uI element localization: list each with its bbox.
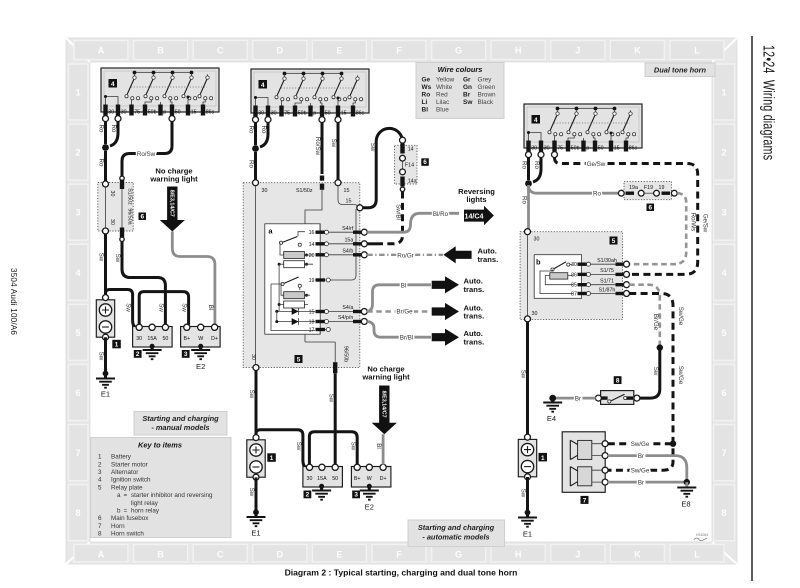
relay a inner box (automatic) bbox=[265, 224, 320, 334]
svg-text:W: W bbox=[198, 336, 203, 342]
svg-text:b: b bbox=[117, 508, 121, 515]
svg-text:J: J bbox=[575, 550, 580, 560]
horn relay b switch bbox=[551, 262, 573, 271]
svg-text:2: 2 bbox=[75, 148, 80, 158]
svg-text:Br/Bl: Br/Bl bbox=[400, 335, 413, 342]
svg-text:Gn: Gn bbox=[463, 84, 472, 91]
svg-text:30: 30 bbox=[136, 336, 142, 342]
svg-text:Sw: Sw bbox=[520, 489, 527, 498]
svg-text:20: 20 bbox=[309, 253, 315, 259]
wire Br horn switch to earth E4 bbox=[553, 397, 596, 400]
svg-text:5: 5 bbox=[721, 328, 726, 338]
wire Br/Ge horn relay S1/71 to horn switch (horn) bbox=[629, 285, 660, 345]
svg-text:30: 30 bbox=[544, 145, 550, 151]
svg-text:Bl: Bl bbox=[422, 107, 429, 114]
wire Sw starter 30 to alternator B+ (manual) bbox=[139, 292, 188, 325]
wire Ro junction to relay plate 30 (automatic) bbox=[254, 152, 257, 180]
item label 2 (automatic starter) bbox=[304, 491, 312, 499]
svg-text:G: G bbox=[455, 550, 462, 560]
battery U1 (horn) bbox=[518, 434, 536, 480]
starter ground (manual) bbox=[150, 344, 155, 349]
terminal circles below ignition (manual) bbox=[103, 116, 109, 122]
svg-text:4: 4 bbox=[534, 117, 538, 124]
svg-text:Bl: Bl bbox=[401, 282, 407, 289]
item label 2 (manual starter) bbox=[134, 350, 142, 358]
svg-text:2: 2 bbox=[721, 148, 726, 158]
alternator ground E2 (automatic) bbox=[367, 484, 372, 489]
svg-text:Br: Br bbox=[463, 92, 471, 99]
svg-text:E: E bbox=[336, 46, 342, 56]
battery U1 (manual) bbox=[96, 295, 114, 341]
svg-text:50b: 50b bbox=[571, 145, 580, 151]
svg-text:E1: E1 bbox=[251, 529, 260, 538]
twin horns U7 box bbox=[562, 432, 605, 493]
svg-text:1: 1 bbox=[98, 454, 102, 461]
wire Bl relay S4/a to auto trans (automatic) bbox=[367, 285, 431, 312]
svg-text:50: 50 bbox=[162, 336, 168, 342]
svg-text:Sw: Sw bbox=[330, 139, 337, 148]
svg-text:3: 3 bbox=[184, 351, 188, 358]
wire Sw fusebox to battery (manual) bbox=[104, 234, 107, 295]
wire Sw/Bl fuse 14a to relay 15a (automatic) bbox=[367, 187, 404, 244]
svg-text:86s: 86s bbox=[206, 109, 215, 115]
svg-text:8: 8 bbox=[721, 508, 726, 518]
svg-text:trans.: trans. bbox=[478, 255, 499, 264]
svg-text:Ge/Sw: Ge/Sw bbox=[587, 161, 606, 168]
svg-text:S1/87h: S1/87h bbox=[599, 287, 616, 293]
svg-text:4: 4 bbox=[721, 268, 727, 278]
wire Ro from ignition 30b (automatic) bbox=[260, 122, 268, 147]
starting and charging automatic models label bbox=[408, 520, 505, 547]
wire Ro from ignition 30 (horn) bbox=[527, 157, 530, 180]
svg-text:Sw: Sw bbox=[125, 303, 132, 312]
svg-text:19: 19 bbox=[309, 278, 315, 284]
svg-text:Dual tone horn: Dual tone horn bbox=[654, 65, 707, 74]
relay plate 30 input terminal (horn) bbox=[525, 229, 540, 243]
svg-text:75: 75 bbox=[284, 110, 290, 116]
svg-text:E1: E1 bbox=[101, 390, 110, 399]
svg-text:86s: 86s bbox=[356, 110, 365, 116]
svg-text:H: H bbox=[515, 550, 522, 560]
wire Sw 15 to fuse F14 via loop (automatic) bbox=[363, 128, 403, 207]
svg-text:E8: E8 bbox=[681, 500, 690, 509]
svg-text:7: 7 bbox=[98, 523, 102, 530]
svg-text:A: A bbox=[98, 46, 105, 56]
svg-text:Lilac: Lilac bbox=[436, 99, 450, 106]
wire 30 rail inside horn relay plate bbox=[527, 234, 529, 316]
svg-text:18: 18 bbox=[309, 320, 315, 326]
svg-text:50: 50 bbox=[598, 145, 604, 151]
svg-text:Sw: Sw bbox=[248, 488, 255, 497]
svg-text:Sw: Sw bbox=[295, 442, 302, 451]
svg-text:Relay plate: Relay plate bbox=[111, 484, 143, 491]
wire Sw starter 30 to alternator B+ (automatic) bbox=[309, 432, 357, 465]
svg-text:50b: 50b bbox=[148, 109, 157, 115]
wire Br/Ge relay S4/a to auto trans (automatic) bbox=[367, 310, 431, 313]
svg-text:B+: B+ bbox=[354, 476, 361, 482]
svg-text:86s: 86s bbox=[629, 145, 638, 151]
wire Sw battery to earth E1 (manual) bbox=[104, 337, 107, 372]
svg-text:Starter motor: Starter motor bbox=[111, 461, 148, 468]
page margin rule right bbox=[751, 36, 753, 581]
svg-text:Sw: Sw bbox=[98, 352, 105, 361]
svg-text:Horn switch: Horn switch bbox=[111, 531, 144, 538]
svg-text:Sw: Sw bbox=[181, 303, 188, 312]
svg-text:Blue: Blue bbox=[436, 107, 449, 114]
svg-text:6: 6 bbox=[98, 515, 102, 522]
horn relay plate grey box (item 5) bbox=[520, 232, 623, 320]
ignition switch U4 (horn) bbox=[524, 104, 642, 152]
svg-text:S4/p/n: S4/p/n bbox=[338, 315, 353, 321]
svg-text:17: 17 bbox=[309, 328, 315, 334]
relay plate grey box (automatic, item 5) bbox=[243, 183, 360, 368]
wire colours legend box bbox=[416, 63, 504, 119]
svg-text:1: 1 bbox=[541, 455, 545, 462]
svg-text:30: 30 bbox=[571, 262, 577, 268]
item label 5 (horn relay plate) bbox=[610, 237, 618, 245]
wire Bl warning light to alternator D+ (manual) bbox=[172, 232, 215, 325]
ignition switch U4 (manual) bbox=[101, 68, 219, 116]
svg-text:Sw/Ge: Sw/Ge bbox=[631, 441, 650, 448]
svg-text:=: = bbox=[124, 492, 128, 499]
wire Ro junction down to relay plate 30 (horn) bbox=[527, 187, 530, 230]
svg-text:6: 6 bbox=[423, 159, 427, 166]
wire Sw/Ge horn relay S1/87h to horns (horn) bbox=[629, 294, 673, 438]
horn switch U8 bbox=[595, 391, 640, 405]
svg-text:15: 15 bbox=[344, 188, 350, 194]
svg-text:2: 2 bbox=[306, 492, 310, 499]
svg-text:15a: 15a bbox=[344, 237, 353, 243]
relay plate bottom terminals (automatic) bbox=[253, 365, 259, 371]
svg-text:S1/30ah: S1/30ah bbox=[597, 258, 617, 264]
svg-text:C: C bbox=[217, 46, 224, 56]
arrow auto trans Bl bbox=[432, 276, 459, 293]
svg-text:30: 30 bbox=[109, 219, 115, 225]
svg-text:2: 2 bbox=[136, 351, 140, 358]
wire Ro from ignition 30 (automatic) bbox=[254, 122, 257, 145]
junction node Sw/Ge (horns) bbox=[670, 441, 676, 447]
wire Sw 96/50b to starter 50 (automatic) bbox=[334, 373, 337, 465]
frame row numbers right bbox=[714, 64, 735, 541]
svg-text:Br/Ge: Br/Ge bbox=[396, 309, 413, 316]
svg-text:1: 1 bbox=[75, 88, 80, 98]
svg-text:14a: 14a bbox=[408, 178, 417, 184]
item label 3 (automatic alternator) bbox=[352, 491, 360, 499]
svg-text:Wire colours: Wire colours bbox=[438, 65, 483, 74]
wire Sw battery to earth E1 (horn) bbox=[526, 477, 529, 511]
svg-text:Starting and charging: Starting and charging bbox=[142, 414, 219, 423]
junction node Ro (manual) bbox=[102, 144, 109, 151]
svg-text:F14: F14 bbox=[405, 162, 414, 168]
svg-text:1: 1 bbox=[721, 88, 726, 98]
relay a terminal rows bbox=[247, 104, 709, 541]
svg-text:30: 30 bbox=[534, 236, 540, 242]
svg-text:Br/Ge: Br/Ge bbox=[652, 314, 659, 331]
svg-text:b: b bbox=[536, 258, 541, 267]
svg-text:- automatic models: - automatic models bbox=[422, 532, 489, 541]
svg-text:horn relay: horn relay bbox=[131, 508, 160, 515]
svg-text:50: 50 bbox=[325, 110, 331, 116]
wire Sw junction to horn switch (horn) bbox=[640, 348, 660, 399]
relay a bottom link to 17 and 96/50b bbox=[271, 224, 335, 342]
svg-text:19a: 19a bbox=[629, 185, 638, 191]
page frame outer band bbox=[66, 38, 737, 564]
wire Ro junction to fusebox (manual) bbox=[104, 151, 107, 181]
relay plate 30 output terminal (horn) bbox=[525, 316, 531, 322]
svg-text:S1/71: S1/71 bbox=[600, 279, 614, 285]
svg-text:2: 2 bbox=[98, 461, 102, 468]
svg-text:S4/b: S4/b bbox=[342, 248, 353, 254]
svg-text:Sw: Sw bbox=[248, 390, 255, 399]
svg-text:Sw: Sw bbox=[114, 254, 121, 263]
svg-text:Sw: Sw bbox=[98, 253, 105, 262]
wire Sw fuse 96/50a to starter 50 (manual) bbox=[122, 242, 165, 325]
svg-text:30: 30 bbox=[531, 145, 537, 151]
item label 1 (horn battery) bbox=[539, 453, 548, 462]
svg-text:75: 75 bbox=[557, 145, 563, 151]
svg-text:5: 5 bbox=[98, 484, 102, 491]
svg-text:Ro/Sw: Ro/Sw bbox=[137, 151, 156, 158]
arrow 14/C4 reversing lights bbox=[464, 206, 494, 226]
wire Ro from ignition 30b (horn) bbox=[533, 157, 541, 182]
svg-text:Sw/Bl: Sw/Bl bbox=[395, 204, 402, 220]
svg-text:p: p bbox=[313, 110, 316, 116]
svg-text:J: J bbox=[575, 46, 580, 56]
terminal circles below ignition (horn) bbox=[526, 152, 532, 158]
junction node Ro (automatic) bbox=[252, 145, 259, 152]
svg-text:15: 15 bbox=[309, 310, 315, 316]
svg-text:Battery: Battery bbox=[111, 454, 132, 461]
svg-text:S4/a: S4/a bbox=[342, 305, 353, 311]
text no charge warning light (manual) bbox=[149, 166, 198, 183]
svg-text:15: 15 bbox=[614, 145, 620, 151]
svg-text:4: 4 bbox=[111, 81, 115, 88]
relay a switch 2 bbox=[281, 277, 302, 290]
svg-text:warning light: warning light bbox=[149, 174, 198, 183]
svg-text:Sw: Sw bbox=[369, 143, 376, 152]
horn 2 symbol bbox=[570, 467, 602, 486]
svg-text:Horn: Horn bbox=[111, 523, 125, 530]
svg-text:5: 5 bbox=[75, 328, 80, 338]
svg-text:Gr: Gr bbox=[463, 77, 471, 84]
svg-text:Green: Green bbox=[478, 84, 496, 91]
horn 1 symbol bbox=[570, 440, 602, 459]
svg-text:7: 7 bbox=[75, 448, 80, 458]
svg-text:7: 7 bbox=[721, 448, 726, 458]
item label 1 (manual battery) bbox=[112, 340, 121, 349]
svg-text:starter inhibitor and reversin: starter inhibitor and reversing bbox=[131, 492, 213, 499]
svg-text:4: 4 bbox=[98, 477, 102, 484]
svg-text:Ro/Ws: Ro/Ws bbox=[690, 213, 697, 232]
junction node Br at E8 bbox=[684, 479, 690, 485]
starter motor U2 (manual) bbox=[133, 324, 173, 347]
svg-text:Ro: Ro bbox=[533, 161, 540, 169]
svg-text:30: 30 bbox=[108, 109, 114, 115]
svg-text:trans.: trans. bbox=[464, 312, 485, 321]
svg-text:Bl: Bl bbox=[375, 443, 382, 449]
ground E4 bbox=[549, 395, 556, 402]
wire Ro junction to fuse F19 (horn) bbox=[529, 185, 619, 193]
svg-text:Brown: Brown bbox=[478, 92, 497, 99]
svg-text:Starting and charging: Starting and charging bbox=[418, 523, 495, 532]
svg-text:Sw: Sw bbox=[349, 442, 356, 451]
horn relay b inner box bbox=[534, 255, 581, 299]
svg-text:trans.: trans. bbox=[464, 285, 485, 294]
svg-text:Yellow: Yellow bbox=[436, 77, 455, 84]
arrow auto trans Ro/Gr bbox=[443, 246, 471, 263]
wire Sw/Ge horn1 to junction bbox=[608, 442, 670, 445]
svg-text:7: 7 bbox=[583, 497, 587, 504]
svg-text:8: 8 bbox=[75, 508, 80, 518]
svg-text:S1/50z: S1/50z bbox=[126, 188, 132, 205]
svg-text:Bl: Bl bbox=[207, 305, 214, 311]
svg-text:F: F bbox=[396, 46, 402, 56]
svg-text:S1/50z: S1/50z bbox=[296, 188, 313, 194]
svg-text:Ro: Ro bbox=[521, 196, 528, 204]
wire 30 rail inside relay plate (automatic) bbox=[255, 185, 257, 365]
svg-text:Br: Br bbox=[575, 396, 581, 403]
svg-text:Ro: Ro bbox=[248, 160, 255, 168]
svg-text:Diagram 2 : Typical starting,: Diagram 2 : Typical starting, charging a… bbox=[285, 568, 518, 578]
wire Ro/Sw ignition 50 to fuse S1/50z (manual) bbox=[122, 121, 172, 176]
wire Ro/Ws fuse 19 to horn relay S1/30ah (horn) bbox=[630, 193, 687, 264]
svg-text:87: 87 bbox=[571, 292, 577, 298]
ground E1 (manual) bbox=[103, 371, 109, 377]
arrow auto trans Br/Bl bbox=[432, 329, 459, 346]
battery U1 (automatic) bbox=[247, 435, 265, 481]
wire Sw battery to starter 30 (automatic) bbox=[256, 430, 307, 468]
svg-text:Sw/Ge: Sw/Ge bbox=[677, 307, 684, 326]
svg-text:Ro/Gr: Ro/Gr bbox=[397, 252, 414, 259]
svg-text:30: 30 bbox=[258, 110, 264, 116]
svg-text:Ro: Ro bbox=[521, 161, 528, 169]
svg-text:5: 5 bbox=[612, 238, 616, 245]
svg-text:30: 30 bbox=[307, 476, 313, 482]
svg-text:30: 30 bbox=[532, 311, 538, 317]
svg-text:15A: 15A bbox=[317, 476, 327, 482]
svg-text:30: 30 bbox=[250, 354, 256, 360]
svg-text:15A: 15A bbox=[147, 336, 157, 342]
svg-text:Sw: Sw bbox=[327, 394, 334, 403]
wire S1/50z fuse link inside relay plate (automatic) bbox=[305, 188, 322, 224]
svg-text:a: a bbox=[117, 492, 121, 499]
wire 19 link inside relay plate (automatic) bbox=[329, 209, 356, 280]
svg-text:Sw: Sw bbox=[463, 99, 473, 106]
svg-text:D+: D+ bbox=[211, 336, 218, 342]
svg-text:L: L bbox=[694, 46, 700, 56]
svg-text:Main fusebox: Main fusebox bbox=[111, 515, 149, 522]
item label 5 (automatic relay plate) bbox=[295, 355, 303, 363]
svg-text:W: W bbox=[367, 476, 372, 482]
svg-text:White: White bbox=[436, 84, 453, 91]
wire 96/50b link inside relay plate (automatic) bbox=[334, 342, 336, 362]
svg-text:A: A bbox=[98, 550, 105, 560]
svg-text:D+: D+ bbox=[380, 476, 387, 482]
svg-text:D: D bbox=[276, 550, 283, 560]
svg-text:Ro: Ro bbox=[110, 125, 117, 133]
svg-text:30: 30 bbox=[271, 110, 277, 116]
svg-text:Ro: Ro bbox=[98, 125, 105, 133]
alternator U3 (manual) bbox=[181, 324, 221, 347]
svg-text:19: 19 bbox=[659, 185, 665, 191]
wire Br horn2 to earth E8 bbox=[608, 481, 684, 484]
svg-text:Grey: Grey bbox=[478, 77, 493, 84]
wire Bl/Ro relay S4/rf to reversing lights (automatic) bbox=[367, 213, 459, 232]
svg-text:75: 75 bbox=[134, 109, 140, 115]
wire Sw relay plate to battery (automatic) bbox=[255, 370, 258, 435]
item label 3 (manual alternator) bbox=[182, 350, 190, 358]
svg-text:E: E bbox=[336, 550, 342, 560]
svg-text:lights: lights bbox=[466, 195, 486, 204]
svg-text:6: 6 bbox=[140, 213, 144, 220]
relay a coil 1 bbox=[278, 243, 313, 312]
item label 6 (manual fusebox) bbox=[139, 213, 147, 221]
horn terminals bbox=[602, 441, 608, 447]
svg-text:16: 16 bbox=[309, 230, 315, 236]
svg-text:Ro: Ro bbox=[422, 92, 431, 99]
svg-text:light relay: light relay bbox=[131, 500, 159, 507]
svg-text:1: 1 bbox=[270, 455, 274, 462]
svg-text:E2: E2 bbox=[365, 503, 374, 512]
svg-text:Black: Black bbox=[478, 99, 494, 106]
svg-text:4: 4 bbox=[75, 268, 81, 278]
main fusebox segment S1/50z (manual, item 6) bbox=[98, 176, 133, 241]
starting and charging manual models label bbox=[134, 412, 227, 436]
svg-text:5: 5 bbox=[297, 356, 301, 363]
item label 7 (horns) bbox=[581, 496, 589, 504]
svg-text:Sw/Ge: Sw/Ge bbox=[631, 468, 650, 475]
wire Ro from ignition 30b (manual) bbox=[110, 121, 118, 146]
svg-text:6: 6 bbox=[75, 388, 80, 398]
svg-text:8: 8 bbox=[616, 377, 620, 384]
svg-text:Sw: Sw bbox=[652, 367, 659, 376]
svg-text:50b: 50b bbox=[298, 110, 307, 116]
fuse F19 (horn, item 6) bbox=[618, 181, 677, 199]
relay a switch 1 bbox=[279, 232, 305, 247]
svg-text:Ro: Ro bbox=[260, 126, 267, 134]
text no charge warning light (automatic) bbox=[361, 364, 410, 381]
svg-text:96/50a: 96/50a bbox=[126, 208, 132, 224]
svg-text:12•24 Wiring diagrams: 12•24 Wiring diagrams bbox=[760, 45, 777, 160]
svg-text:=: = bbox=[124, 508, 128, 515]
svg-text:3: 3 bbox=[75, 208, 80, 218]
svg-text:Ro/Sw: Ro/Sw bbox=[314, 137, 321, 156]
wire 15 link to plate edge (automatic) bbox=[338, 185, 358, 207]
junction node Br/Ge-Sw (horn) bbox=[657, 344, 663, 350]
alternator ground E2 (manual) bbox=[198, 344, 203, 349]
relay a diode 1 bbox=[275, 308, 315, 315]
svg-text:3: 3 bbox=[98, 469, 102, 476]
frame column letters bottom bbox=[74, 545, 724, 563]
svg-text:8/E3,14/C7: 8/E3,14/C7 bbox=[168, 190, 174, 217]
svg-text:1: 1 bbox=[115, 342, 119, 349]
svg-text:S4/rf: S4/rf bbox=[342, 226, 354, 232]
svg-text:6: 6 bbox=[721, 388, 726, 398]
svg-text:Sw: Sw bbox=[520, 370, 527, 379]
svg-text:p: p bbox=[586, 145, 589, 151]
svg-text:S1/75: S1/75 bbox=[600, 268, 614, 274]
svg-text:Br: Br bbox=[638, 480, 644, 487]
svg-text:F: F bbox=[396, 550, 402, 560]
svg-text:15: 15 bbox=[191, 109, 197, 115]
svg-text:15: 15 bbox=[346, 198, 352, 204]
starter motor U2 (automatic) bbox=[303, 464, 343, 487]
svg-text:Ignition switch: Ignition switch bbox=[111, 477, 151, 484]
svg-text:Ro: Ro bbox=[248, 126, 255, 134]
svg-text:Red: Red bbox=[436, 92, 448, 99]
ground E8 bbox=[685, 482, 688, 487]
wire Ro from ignition 30 (manual) bbox=[104, 121, 107, 144]
